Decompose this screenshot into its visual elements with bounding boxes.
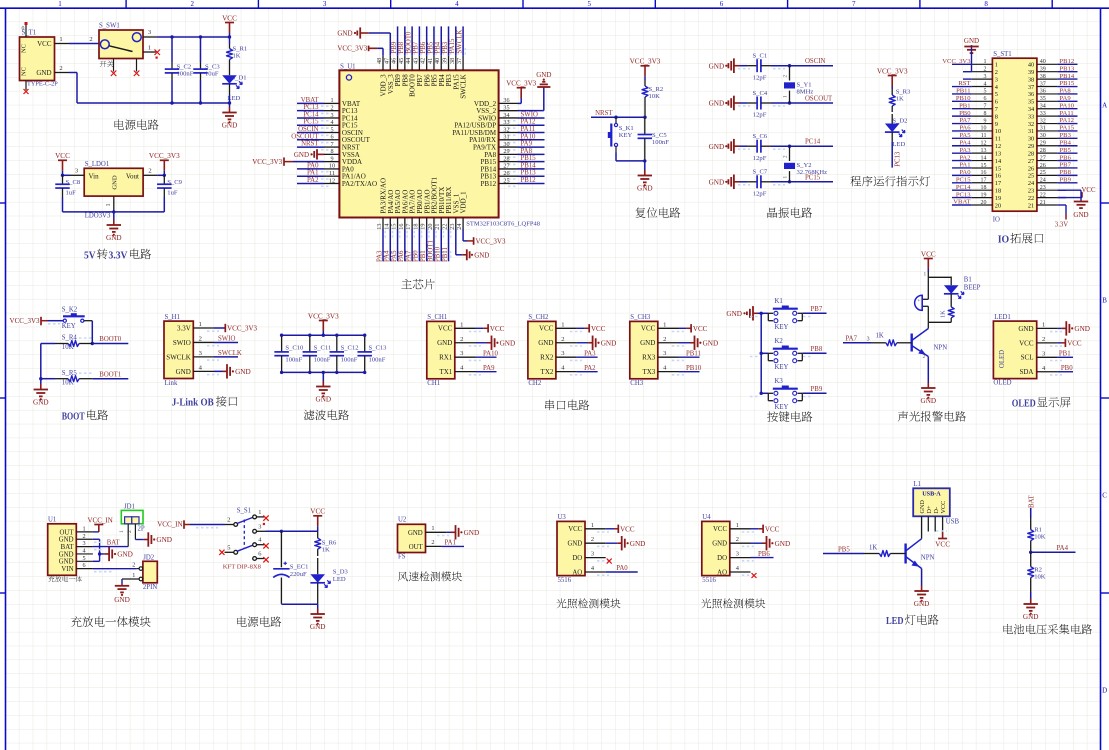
svg-text:SDA: SDA [1019, 368, 1033, 376]
svg-text:100nF: 100nF [285, 357, 302, 364]
svg-text:S_C5: S_C5 [652, 132, 667, 139]
pin 3 of LED1 [1037, 356, 1058, 358]
pin 8 VSSA of U1 [324, 153, 339, 155]
svg-text:1: 1 [119, 530, 125, 533]
net label PB14 right [1057, 78, 1077, 80]
pin 6 OSCOUT of U1 [324, 139, 339, 141]
wire and net label OSCOUT [297, 139, 324, 141]
svg-text:10K: 10K [649, 93, 661, 100]
svg-text:3: 3 [995, 76, 998, 83]
svg-text:S_C4: S_C4 [753, 90, 768, 97]
capacitor S_C2 100nF [171, 62, 173, 69]
svg-text:100nF: 100nF [177, 71, 194, 78]
svg-text:2: 2 [591, 536, 594, 543]
svg-text:7: 7 [852, 0, 856, 8]
S1 pin 4 [253, 543, 257, 547]
svg-text:1K: 1K [233, 53, 241, 60]
wire and net label SWCLK [462, 26, 464, 55]
ground GND at U2 pin1 [446, 531, 451, 533]
svg-text:14: 14 [995, 158, 1002, 165]
pin 1 of U3 [585, 528, 606, 530]
pin GND of L1 [921, 516, 923, 538]
svg-text:S_Y1: S_Y1 [797, 82, 812, 89]
svg-text:VCC_IN: VCC_IN [157, 521, 182, 529]
net label PB10 left [952, 100, 972, 102]
filter top rail wire [282, 334, 365, 336]
svg-text:14: 14 [981, 155, 987, 161]
svg-text:PA3: PA3 [584, 350, 596, 357]
pin 39 PB3 of U1 [448, 56, 450, 71]
svg-text:46: 46 [391, 58, 398, 64]
svg-text:2: 2 [783, 155, 789, 158]
svg-text:VCC: VCC [55, 152, 70, 160]
wire and net label PA7 [411, 229, 413, 261]
svg-text:VCC_3V3: VCC_3V3 [149, 152, 180, 160]
pin 18 PB0/AO of U1 [418, 218, 420, 230]
net label PB3 right [1057, 137, 1077, 139]
svg-text:17: 17 [981, 178, 987, 184]
svg-text:33: 33 [1040, 111, 1046, 117]
svg-text:KEY: KEY [775, 324, 789, 331]
pin 1 of JD1 [127, 524, 129, 547]
title 滤波电路 [304, 410, 315, 420]
pin 2 Vout [143, 174, 157, 176]
pin 2 of LED1 [1037, 342, 1058, 344]
svg-text:PB0: PB0 [959, 110, 971, 117]
svg-text:S_C10: S_C10 [285, 344, 304, 351]
svg-text:29: 29 [1040, 141, 1046, 147]
pin 20 of ST1 [972, 204, 993, 206]
wire and net label PB11 [448, 229, 450, 261]
wire and net label PB7 [418, 26, 420, 55]
svg-text:13: 13 [981, 148, 987, 154]
svg-text:OLED: OLED [993, 380, 1011, 387]
svg-text:4: 4 [455, 0, 459, 8]
svg-text:RX2: RX2 [540, 354, 554, 362]
svg-text:1: 1 [783, 176, 789, 179]
svg-text:PC13: PC13 [894, 151, 901, 167]
svg-text:32: 32 [503, 126, 509, 133]
svg-text:43: 43 [412, 58, 419, 64]
svg-text:S_C6: S_C6 [753, 133, 768, 140]
svg-text:GND: GND [775, 540, 791, 548]
svg-text:PA2: PA2 [959, 154, 970, 161]
pin 18 of ST1 [972, 189, 993, 191]
svg-text:VCC_3V3: VCC_3V3 [942, 58, 971, 65]
svg-text:1: 1 [258, 509, 261, 516]
svg-text:22: 22 [1028, 195, 1034, 202]
svg-text:OUT: OUT [409, 544, 424, 551]
svg-text:PB1: PB1 [1059, 351, 1071, 358]
svg-text:VCC: VCC [1082, 187, 1096, 194]
svg-text:1K: 1K [940, 310, 947, 318]
svg-text:1: 1 [736, 522, 739, 529]
pin 12 PA2/TX/AO of U1 [324, 182, 339, 184]
connector JD2 2PIN [143, 561, 157, 583]
svg-text:1: 1 [330, 97, 333, 104]
svg-text:36: 36 [503, 97, 509, 104]
pin 3 of ST1 [972, 78, 993, 80]
wire bottom rail of supply [317, 599, 319, 604]
wire and net label BOOT0 [411, 26, 413, 55]
svg-text:26: 26 [503, 170, 509, 177]
svg-text:PA11: PA11 [521, 126, 536, 133]
pin 1 of SW1 no-connect [143, 51, 156, 53]
label 开关 [100, 61, 107, 67]
svg-text:1: 1 [561, 321, 564, 328]
svg-text:14: 14 [383, 224, 390, 230]
svg-text:PC14: PC14 [805, 139, 821, 146]
svg-text:OSCIN: OSCIN [805, 58, 825, 65]
resistor S_R3 1K [891, 86, 893, 89]
svg-text:10K: 10K [62, 344, 74, 351]
pin 39 of ST1 [1037, 71, 1058, 73]
net label PC13 left [952, 197, 972, 199]
svg-text:GND: GND [536, 71, 551, 79]
wire left vertical rail [40, 344, 42, 379]
svg-text:8: 8 [984, 111, 987, 117]
svg-text:2: 2 [59, 65, 62, 72]
svg-text:PB12: PB12 [481, 180, 497, 188]
VCC power flag at L1 [942, 532, 944, 539]
svg-text:S_C7: S_C7 [753, 169, 768, 176]
svg-text:PA8: PA8 [521, 148, 533, 155]
svg-text:PA0: PA0 [616, 565, 628, 572]
pin 41 PB5 of U1 [433, 56, 435, 71]
pin 17 of ST1 [972, 182, 993, 184]
svg-text:25: 25 [1028, 173, 1034, 180]
svg-text:30: 30 [1040, 133, 1046, 139]
svg-text:GND: GND [408, 530, 423, 537]
svg-text:35: 35 [1040, 96, 1046, 102]
connector JD1 2P [121, 510, 143, 523]
title 主芯片 [401, 279, 411, 289]
pin 47 VSS_3 of U1 [389, 56, 391, 71]
svg-text:PB3: PB3 [442, 41, 449, 53]
svg-text:24: 24 [456, 224, 463, 230]
svg-text:TX2: TX2 [541, 368, 554, 376]
ground GND of JD2 [121, 579, 123, 584]
ground GND at S_CH3 [679, 342, 691, 344]
wire VCC to parallel node [927, 272, 929, 277]
net label SWIO at H1 pin2 [214, 341, 238, 343]
svg-text:PA4: PA4 [1057, 545, 1069, 552]
net label PA4 and wire [1029, 551, 1032, 554]
svg-text:PC13: PC13 [956, 191, 971, 198]
svg-text:GND: GND [709, 100, 725, 108]
svg-text:PB10: PB10 [686, 365, 702, 372]
svg-text:2: 2 [663, 336, 666, 343]
title 按键电路 [767, 411, 778, 421]
pin D+ of L1 [927, 516, 929, 531]
svg-text:KEY: KEY [775, 404, 789, 411]
svg-text:S_SW1: S_SW1 [99, 23, 120, 30]
svg-text:R1: R1 [1034, 527, 1042, 534]
net label BOOT0 and wire [92, 343, 128, 345]
svg-text:6: 6 [720, 0, 724, 8]
svg-text:PA1: PA1 [307, 170, 318, 177]
svg-text:JD2: JD2 [143, 554, 155, 561]
svg-text:33: 33 [503, 119, 509, 126]
net label PA7 left [952, 123, 972, 125]
svg-text:S_ST1: S_ST1 [993, 51, 1012, 58]
svg-text:VCC_3V3: VCC_3V3 [877, 67, 908, 75]
svg-text:24: 24 [1028, 180, 1035, 187]
ground at U1 pin 8 VSSA [317, 153, 324, 155]
svg-text:1K: 1K [869, 544, 877, 551]
net label PA0 left [952, 174, 972, 176]
svg-text:PB13: PB13 [521, 170, 537, 177]
svg-text:45: 45 [398, 58, 405, 64]
svg-text:100nF: 100nF [341, 357, 358, 364]
svg-text:37: 37 [456, 58, 463, 64]
svg-text:38: 38 [1028, 76, 1034, 83]
net label PA10 right [1057, 108, 1077, 110]
svg-text:PB12: PB12 [521, 177, 537, 184]
pin 10 PA0 of U1 [324, 168, 339, 170]
wire and net label VBAT [297, 102, 324, 104]
wire VCC_IN to S1 [190, 524, 225, 526]
svg-text:15: 15 [995, 165, 1001, 172]
svg-text:PA11: PA11 [1060, 110, 1074, 117]
pin 40 of ST1 [1037, 63, 1058, 65]
svg-text:PA1: PA1 [445, 539, 456, 546]
svg-text:PA5: PA5 [959, 132, 971, 139]
svg-text:2: 2 [330, 104, 333, 111]
svg-text:26: 26 [1028, 165, 1034, 172]
svg-text:JD1: JD1 [124, 503, 135, 510]
svg-text:GND: GND [709, 62, 725, 70]
wire and net label PC14 [297, 117, 324, 119]
pin 4 of U3 [585, 571, 606, 573]
svg-text:FS: FS [398, 554, 406, 561]
svg-text:BOOT1: BOOT1 [99, 371, 121, 378]
pin 2 GND of T1 [55, 72, 70, 74]
pin 25 of ST1 [1037, 174, 1058, 176]
pin 23 VSS_1 of U1 [455, 218, 457, 230]
ground GND at ST1 pin 23 area [1057, 189, 1081, 191]
pin 33 PA12/USB/DP of U1 [499, 124, 518, 126]
svg-text:2: 2 [227, 517, 230, 524]
transistor NPN of LED lamp [904, 544, 906, 564]
S1 pin 6 [253, 557, 257, 561]
svg-text:GND: GND [630, 540, 646, 548]
svg-text:1K: 1K [876, 333, 884, 340]
svg-text:16: 16 [398, 224, 405, 230]
svg-text:PA4: PA4 [384, 250, 391, 262]
svg-text:4: 4 [330, 119, 333, 126]
svg-text:24: 24 [1040, 178, 1046, 184]
svg-text:2P: 2P [138, 526, 145, 533]
net label PB15 right [1057, 86, 1077, 88]
svg-text:1: 1 [783, 95, 789, 98]
svg-text:OSCIN: OSCIN [298, 126, 318, 133]
svg-text:3: 3 [330, 112, 333, 119]
pin 22 of ST1 [1037, 197, 1058, 199]
pin 35 VSS_2 of U1 [499, 110, 518, 112]
pin 5 of charge module U1 [76, 560, 93, 562]
svg-text:0: 0 [22, 26, 25, 32]
svg-text:VIN: VIN [61, 566, 73, 573]
svg-text:VCC_3V3: VCC_3V3 [476, 238, 506, 246]
svg-text:VCC_3V3: VCC_3V3 [308, 312, 339, 320]
pin 9 VDDA of U1 [324, 161, 339, 163]
wire and net label PB12 [518, 182, 545, 184]
svg-text:S_Y2: S_Y2 [797, 162, 812, 169]
net label PA6 left [952, 130, 972, 132]
svg-text:CH3: CH3 [630, 380, 643, 387]
svg-text:LED: LED [892, 141, 905, 148]
VCC_3V3 power flag at U1 pin 36 [518, 102, 522, 104]
svg-text:10K: 10K [62, 379, 74, 386]
svg-text:VBAT: VBAT [953, 199, 970, 206]
svg-text:2PIN: 2PIN [143, 584, 157, 591]
svg-text:1K: 1K [896, 96, 904, 103]
svg-text:J-Link OB: J-Link OB [172, 397, 215, 409]
filter bottom rail wire [282, 371, 365, 373]
wire and net label PB0 [418, 229, 420, 261]
pin 28 PB15 of U1 [499, 161, 518, 163]
svg-text:GND: GND [637, 185, 653, 193]
svg-text:OLED: OLED [999, 350, 1006, 368]
pin 16 PA6/AO of U1 [404, 218, 406, 230]
svg-text:1uF: 1uF [167, 190, 178, 197]
svg-text:VCC: VCC [568, 526, 582, 533]
svg-text:S_H1: S_H1 [165, 314, 181, 321]
svg-text:PB13: PB13 [1060, 65, 1075, 72]
svg-text:VCC: VCC [935, 541, 950, 549]
svg-text:3: 3 [82, 540, 85, 547]
switch lever [109, 46, 133, 52]
svg-text:1: 1 [431, 525, 434, 532]
svg-text:S_EC1: S_EC1 [290, 564, 309, 571]
resistor 1K of alarm [950, 303, 952, 307]
svg-text:20: 20 [995, 202, 1001, 209]
svg-text:PB5: PB5 [427, 41, 434, 53]
svg-text:15: 15 [981, 163, 987, 169]
svg-text:4: 4 [984, 81, 987, 87]
ground GND at U3 [606, 542, 618, 544]
pin 11 of ST1 [972, 137, 993, 139]
svg-text:38: 38 [1040, 74, 1046, 80]
svg-text:21: 21 [1040, 200, 1046, 206]
svg-text:SWCLK: SWCLK [460, 74, 468, 99]
VCC power flag at S_CH1 [476, 327, 484, 329]
svg-text:PB1: PB1 [420, 250, 427, 262]
svg-text:VCC: VCC [765, 525, 780, 533]
wire and net label PA8 [518, 153, 545, 155]
capacitor S_C5 100nF [644, 117, 646, 134]
svg-text:34: 34 [1040, 104, 1046, 110]
svg-text:PC14: PC14 [303, 111, 319, 118]
VCC power flag at U3 [606, 528, 614, 530]
svg-text:PB11: PB11 [686, 350, 701, 357]
wire and net label PC15 [297, 124, 324, 126]
svg-text:C: C [1102, 492, 1107, 500]
svg-text:1: 1 [1042, 321, 1045, 328]
title 充放电一体模块 [71, 616, 82, 627]
svg-text:1: 1 [995, 62, 998, 69]
svg-text:10K: 10K [1034, 574, 1046, 581]
svg-text:100nF: 100nF [652, 139, 669, 146]
svg-text:GND: GND [112, 175, 119, 190]
svg-text:12: 12 [981, 141, 987, 147]
svg-text:VCC_IN: VCC_IN [88, 516, 113, 524]
capacitor S_C10 100nF [281, 335, 283, 352]
svg-text:VCC: VCC [222, 14, 237, 22]
svg-text:SWCLK: SWCLK [166, 353, 191, 361]
svg-text:12: 12 [995, 143, 1001, 150]
svg-text:29: 29 [503, 148, 509, 155]
pin 4 of U4 [730, 571, 751, 573]
svg-text:30: 30 [1028, 136, 1034, 143]
svg-text:LED: LED [333, 576, 346, 583]
pin 2 of charge module U1 [76, 538, 93, 540]
pin 1 of ST1 [972, 63, 993, 65]
svg-text:2: 2 [199, 335, 202, 342]
svg-text:B1: B1 [964, 276, 972, 283]
svg-text:K3: K3 [775, 378, 784, 385]
pin 4 of charge module U1 [76, 553, 93, 555]
switch S_SW1 [99, 30, 143, 59]
svg-text:USB: USB [946, 519, 960, 526]
VCC power flag at S_CH3 [679, 327, 687, 329]
regulator S_LDO1 LDO3V3 [84, 168, 143, 196]
pin 1 VCC of T1 [55, 43, 70, 45]
svg-text:GND: GND [59, 551, 74, 558]
svg-text:S_C12: S_C12 [341, 344, 359, 351]
svg-text:PA9: PA9 [521, 141, 533, 148]
svg-text:GND: GND [310, 623, 326, 631]
svg-text:2: 2 [460, 336, 463, 343]
svg-text:S_CH3: S_CH3 [630, 314, 651, 321]
svg-text:VCC: VCC [310, 508, 325, 516]
svg-text:1: 1 [924, 272, 927, 278]
net label PB10 [679, 371, 700, 373]
ground at U1 pin 35 [518, 110, 544, 112]
pin 43 PB7 of U1 [418, 56, 420, 71]
svg-text:GND: GND [640, 339, 655, 347]
wire VCC_3V3 to key [48, 320, 64, 322]
svg-text:USB-A: USB-A [922, 490, 941, 497]
svg-text:13: 13 [376, 224, 383, 230]
svg-text:20: 20 [427, 224, 434, 230]
wire and net label PB6 [426, 26, 428, 55]
ground GND filter [322, 372, 324, 381]
pin 32 of ST1 [1037, 123, 1058, 125]
wire and net label PC13 [297, 110, 324, 112]
svg-text:VCC: VCC [490, 325, 505, 333]
svg-text:12pF: 12pF [753, 74, 767, 81]
svg-text:8: 8 [995, 113, 998, 120]
pin 15 of ST1 [972, 167, 993, 169]
svg-text:PA7: PA7 [846, 336, 858, 343]
wire and net label PA10 [518, 139, 545, 141]
svg-text:18: 18 [412, 224, 419, 230]
wire and net label PB7 [802, 312, 826, 314]
svg-text:S_R2: S_R2 [649, 86, 664, 93]
svg-text:NPN: NPN [934, 345, 948, 352]
pin 3 of SW1 [143, 36, 158, 38]
ground GND at H1 pin4 [214, 370, 223, 372]
svg-text:6: 6 [330, 134, 333, 141]
svg-text:GND: GND [156, 536, 172, 544]
net label PB1 left [952, 108, 972, 110]
svg-text:19: 19 [981, 192, 987, 198]
resistor R2 10K [1030, 552, 1032, 566]
svg-text:BAT: BAT [1028, 494, 1035, 508]
svg-text:BOOT1: BOOT1 [427, 240, 434, 262]
